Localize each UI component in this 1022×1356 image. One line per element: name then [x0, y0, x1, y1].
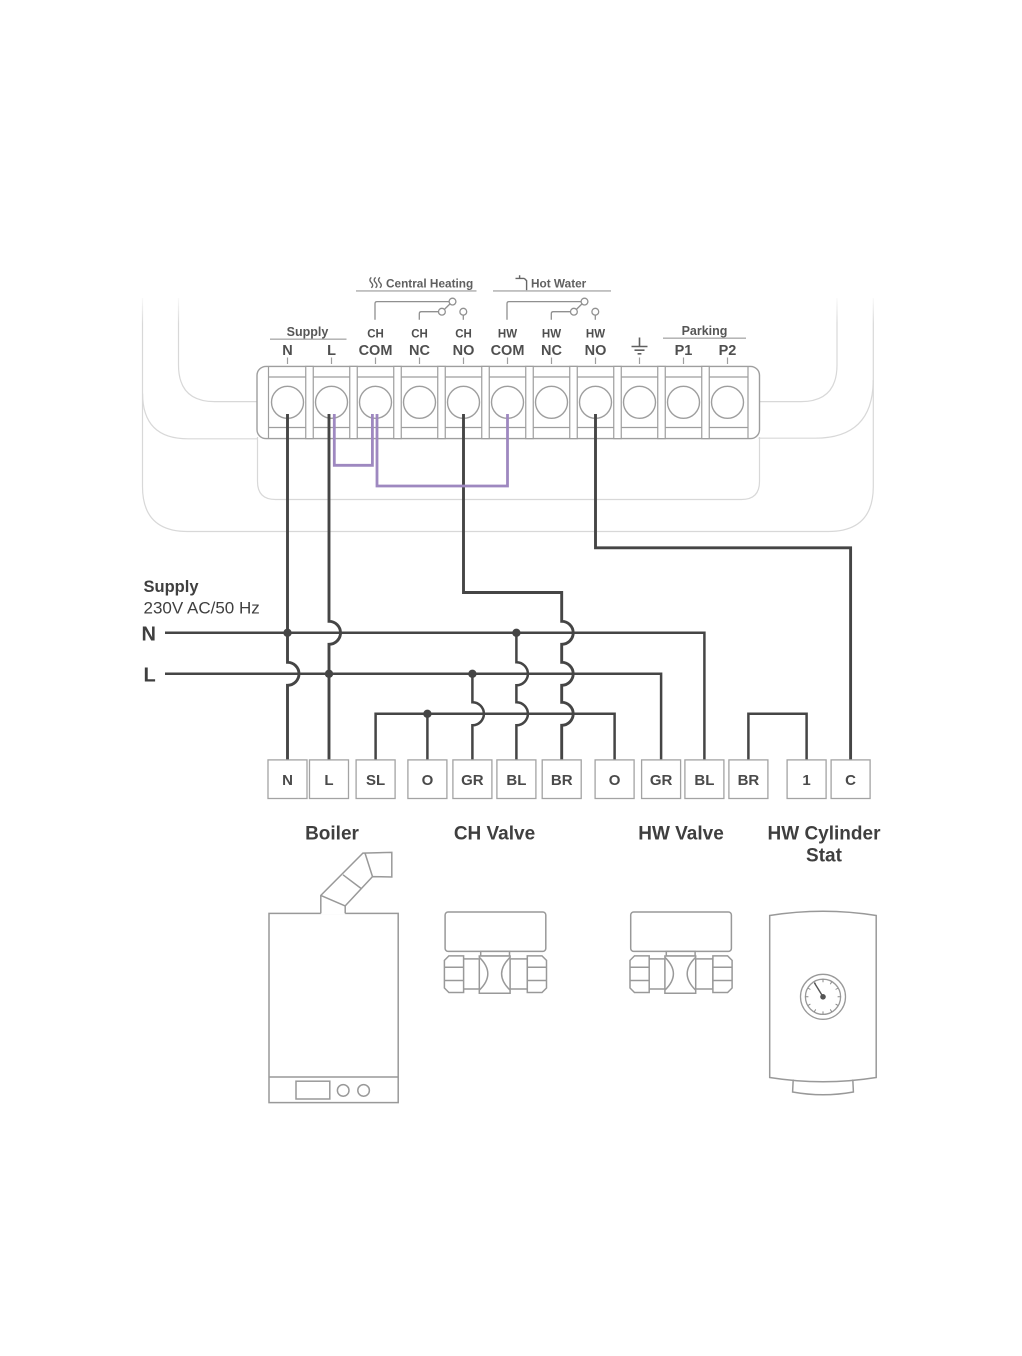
heading underline CH — [356, 290, 477, 292]
wire purple link L to CH COM — [334, 414, 372, 465]
wire supply L drop (L terminal, hop over N rail, to boiler L box) — [329, 414, 341, 761]
terminal CH NC — [404, 386, 436, 418]
terminal HW NC — [536, 386, 568, 418]
boiler display — [296, 1081, 330, 1099]
wire HW NO to cylinder stat C (jog right at top) — [596, 414, 851, 761]
terminal L — [316, 386, 348, 418]
svg-text:CH Valve: CH Valve — [454, 824, 535, 845]
relay HW: NC feed line — [551, 312, 570, 320]
leader tick — [375, 358, 377, 365]
relay HW: NO stub — [594, 315, 596, 320]
CH valve body — [479, 956, 510, 993]
relay HW: COM feed line — [507, 302, 581, 320]
CH valve right nut — [527, 956, 546, 993]
relay CH: COM contact — [449, 298, 456, 305]
leader tick — [727, 358, 729, 365]
wire L rail (to HW valve GR box) — [165, 674, 661, 761]
wire CH NO to CH valve BR (jog right, hops N/L/SL rails) — [464, 414, 574, 761]
wire CH valve O drop — [426, 714, 429, 761]
junction L rail / GR drop — [468, 670, 476, 678]
terminal box BR at x=561.7 — [542, 760, 581, 799]
junction SL rail / O drop — [423, 710, 431, 718]
heating waves icon — [370, 277, 381, 287]
strip divider 2 — [350, 366, 358, 438]
enclosure inner outline right — [759, 298, 838, 402]
leader tick — [287, 358, 289, 365]
svg-text:Stat: Stat — [806, 846, 843, 867]
svg-text:Hot Water: Hot Water — [531, 277, 587, 291]
CH valve neck — [481, 951, 510, 956]
svg-text:GR: GR — [461, 772, 484, 789]
relay HW: COM contact — [581, 298, 588, 305]
HW valve left nut — [630, 956, 649, 993]
svg-text:BR: BR — [551, 772, 573, 789]
leader tick — [683, 358, 685, 365]
junction L rail / L drop — [325, 670, 333, 678]
boiler button 1 — [337, 1085, 349, 1097]
CH valve left pipe — [463, 959, 479, 989]
terminal box GR at x=472.4 — [453, 760, 492, 799]
leader tick — [419, 358, 421, 365]
svg-text:N: N — [282, 343, 292, 359]
wire SL rail (boiler SL to HW valve O box) — [376, 714, 615, 761]
Supply underline — [270, 338, 347, 340]
svg-text:Supply: Supply — [144, 578, 200, 596]
svg-text:BL: BL — [694, 772, 714, 789]
relay CH: switch arm — [444, 304, 450, 310]
wire CH valve BL drop (from N rail, hops L and SL rails) — [516, 633, 528, 761]
svg-text:P2: P2 — [719, 343, 737, 359]
HW valve left pipe — [649, 959, 665, 989]
wire purple link CH COM to HW COM — [377, 414, 508, 486]
svg-text:L: L — [324, 772, 333, 789]
enclosure inner outline left — [179, 298, 259, 402]
relay CH: NO contact — [460, 308, 467, 315]
svg-text:Central Heating: Central Heating — [386, 277, 473, 291]
terminal box BL at x=704.4 — [685, 760, 724, 799]
CH valve actuator — [445, 912, 546, 951]
terminal P1 — [668, 386, 700, 418]
svg-text:HW: HW — [542, 329, 561, 341]
terminal HW COM — [492, 386, 524, 418]
relay CH: NC contact — [439, 308, 446, 315]
relay CH: NC feed line — [419, 312, 438, 320]
svg-text:Supply: Supply — [287, 325, 329, 339]
terminal box GR at x=661.1 — [642, 760, 681, 799]
svg-text:C: C — [845, 772, 856, 789]
boiler flue joints — [321, 853, 373, 906]
svg-text:O: O — [609, 772, 621, 789]
cylinder stat dial inner — [805, 979, 840, 1014]
strip divider 8 — [614, 366, 622, 438]
svg-text:CH: CH — [455, 329, 472, 341]
svg-text:L: L — [144, 665, 156, 687]
wire N rail (to HW valve BL box) — [165, 633, 704, 761]
dial hub — [820, 994, 826, 1000]
svg-text:SL: SL — [366, 772, 385, 789]
heading underline HW — [493, 290, 611, 292]
leader tick — [551, 358, 553, 365]
terminal earth — [624, 386, 656, 418]
svg-text:BR: BR — [738, 772, 760, 789]
dial ticks — [805, 979, 840, 1014]
junction N rail / BL drop — [512, 629, 520, 637]
strip divider 1 — [306, 366, 314, 438]
junction N rail / N drop — [283, 629, 291, 637]
strip divider 5 — [482, 366, 490, 438]
relay CH: COM feed line — [375, 302, 449, 320]
svg-text:P1: P1 — [675, 343, 693, 359]
svg-text:COM: COM — [359, 343, 393, 359]
boiler button 2 — [358, 1085, 370, 1097]
dial needle — [814, 983, 823, 997]
svg-text:Boiler: Boiler — [305, 824, 359, 845]
svg-text:NC: NC — [409, 343, 430, 359]
leader tick — [595, 358, 597, 365]
svg-text:NO: NO — [453, 343, 475, 359]
terminal box L at x=329 — [310, 760, 349, 799]
boiler panel line — [269, 1076, 398, 1078]
HW valve right nut — [713, 956, 732, 993]
terminal box 1 at x=806.6 — [787, 760, 826, 799]
svg-text:HW: HW — [498, 329, 517, 341]
svg-text:NO: NO — [585, 343, 607, 359]
HW valve body — [665, 956, 696, 993]
leader tick — [639, 358, 641, 365]
relay HW: NC contact — [571, 308, 578, 315]
terminal box O at x=427.4 — [408, 760, 447, 799]
svg-text:L: L — [327, 343, 336, 359]
strip divider 4 — [438, 366, 446, 438]
terminal strip body — [257, 366, 760, 438]
strip divider 10 — [702, 366, 710, 438]
cylinder stat base tab — [793, 1080, 854, 1095]
cylinder stat dial outer — [801, 974, 846, 1019]
svg-text:GR: GR — [650, 772, 673, 789]
relay CH: NO stub — [462, 315, 464, 320]
wire link BR to 1 (cylinder stat) — [748, 714, 806, 761]
svg-text:230V AC/50 Hz: 230V AC/50 Hz — [144, 599, 260, 618]
svg-text:CH: CH — [411, 329, 428, 341]
cylinder stat body — [770, 911, 877, 1082]
enclosure outline outer left/bottom/right — [143, 298, 874, 532]
terminal box O at x=614.6 — [595, 760, 634, 799]
terminal CH COM — [360, 386, 392, 418]
HW valve neck — [666, 951, 695, 956]
leader tick — [507, 358, 509, 365]
Parking underline — [663, 337, 746, 339]
terminal box N at x=287.5 — [268, 760, 307, 799]
boiler body — [269, 913, 398, 1102]
svg-text:NC: NC — [541, 343, 562, 359]
CH valve left nut — [444, 956, 463, 993]
enclosure outline right corner offshoot — [759, 380, 874, 438]
svg-text:HW Cylinder: HW Cylinder — [768, 824, 882, 845]
svg-text:CH: CH — [367, 329, 384, 341]
strip divider 9 — [658, 366, 666, 438]
strip divider 3 — [394, 366, 402, 438]
svg-text:N: N — [282, 772, 293, 789]
relay HW: switch arm — [576, 304, 582, 310]
wire CH valve GR drop (from L rail, hop over SL rail) — [472, 674, 484, 761]
leader tick — [463, 358, 465, 365]
svg-text:HW: HW — [586, 329, 605, 341]
terminal P2 — [712, 386, 744, 418]
terminal box BR at x=748.4 — [729, 760, 768, 799]
terminal CH NO — [448, 386, 480, 418]
svg-text:O: O — [422, 772, 434, 789]
strip divider 7 — [570, 366, 578, 438]
svg-text:BL: BL — [506, 772, 526, 789]
tap icon — [516, 275, 527, 290]
wire supply N drop (N terminal to N rail, hop over L rail, to boiler N box) — [288, 414, 300, 761]
terminal box SL at x=375.6 — [356, 760, 395, 799]
relay HW: NO contact — [592, 308, 599, 315]
CH valve right pipe — [510, 959, 527, 989]
svg-text:COM: COM — [491, 343, 525, 359]
terminal box C at x=850.6 — [831, 760, 870, 799]
HW valve right pipe — [696, 959, 713, 989]
terminal N — [272, 386, 304, 418]
boiler flue — [321, 852, 392, 914]
terminal tray outline — [258, 437, 760, 500]
svg-text:Parking: Parking — [682, 324, 728, 338]
enclosure outline left corner offshoot — [143, 394, 258, 439]
svg-text:N: N — [142, 624, 156, 646]
svg-text:HW Valve: HW Valve — [638, 824, 724, 845]
svg-text:1: 1 — [802, 772, 810, 789]
HW valve actuator — [631, 912, 732, 951]
terminal box BL at x=516.4 — [497, 760, 536, 799]
leader tick — [331, 358, 333, 365]
earth symbol — [632, 338, 648, 354]
terminal HW NO — [580, 386, 612, 418]
strip divider 6 — [526, 366, 534, 438]
